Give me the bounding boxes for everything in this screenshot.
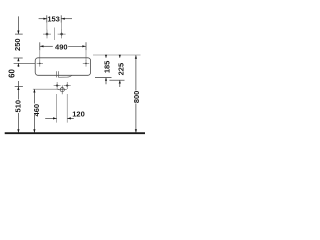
dimension 185 bottom tick	[95, 77, 112, 79]
drain outlet circle with cross	[58, 85, 67, 94]
extension line right 120	[66, 94, 68, 123]
dimension 490 left tick	[39, 42, 41, 50]
dimension 153 line right arrow	[61, 18, 72, 20]
extension line drain to 460	[33, 88, 59, 90]
dimension 153 right tick	[60, 15, 62, 22]
svg-text:185: 185	[103, 61, 112, 74]
dimension 120 right arrow	[67, 117, 74, 119]
dimension 153 left tick	[46, 15, 48, 22]
dimension 60 line at hole centerline	[14, 62, 36, 64]
extension line 490 left	[39, 50, 41, 61]
tick at basin top left	[14, 57, 23, 59]
extension line left 120	[56, 94, 58, 123]
wall fixing hole left below basin (diamond with cross)	[54, 82, 61, 89]
fixing hole left (cross mark)	[37, 60, 43, 66]
dimension 490 right arrow	[68, 45, 86, 47]
svg-text:120: 120	[72, 109, 85, 118]
dimension 225 upper arrow	[119, 55, 121, 58]
extension line left tap hole	[46, 23, 48, 31]
dimension 800 upper arrow	[135, 55, 137, 90]
dimension 250 upper arrow	[17, 16, 19, 34]
tap hole right (diamond with cross)	[58, 30, 66, 39]
dimension 460 upper arrow	[33, 89, 35, 103]
basin outline (front view rounded rectangle)	[35, 58, 90, 76]
dimension 510 upper arrow	[17, 81, 19, 100]
svg-text:460: 460	[32, 104, 41, 117]
tap hole left (diamond with cross)	[43, 30, 51, 39]
dimension 490 left arrow	[40, 45, 53, 47]
svg-text:510: 510	[14, 100, 23, 113]
fixing hole right (cross mark)	[83, 60, 89, 66]
dimension 250 tick at tap centerline	[15, 33, 23, 35]
dimension 153 line left arrow	[39, 18, 47, 20]
dimension 120 left arrow	[45, 117, 56, 119]
dimension 510 lower arrow to floor	[17, 113, 19, 133]
wall fixing hole right below basin (diamond with cross)	[64, 82, 71, 89]
dimension 460 lower arrow to floor	[33, 115, 35, 133]
dimension 225 bottom tick	[109, 79, 124, 81]
svg-text:800: 800	[132, 91, 141, 104]
dimension 800 lower arrow to floor	[135, 104, 137, 133]
svg-text:60: 60	[8, 69, 17, 78]
drain notch below basin	[56, 71, 72, 77]
dimension 185 lower arrow	[105, 78, 107, 85]
dimension 490 right tick	[85, 42, 87, 50]
extension line right tap hole	[60, 23, 62, 31]
tap holes centerline	[53, 28, 55, 41]
svg-text:225: 225	[116, 63, 125, 76]
dimension 225 lower arrow	[119, 80, 121, 87]
dimension 60 lower arrow	[17, 63, 19, 67]
svg-text:153: 153	[47, 15, 60, 24]
floor line	[5, 132, 145, 134]
dimension 250 lower arrow	[17, 58, 19, 61]
svg-text:250: 250	[13, 38, 22, 51]
extension line basin top right	[93, 54, 141, 56]
extension line 490 right	[85, 50, 87, 61]
dimension 510 tick	[15, 85, 23, 87]
svg-text:490: 490	[55, 43, 68, 52]
dimension 185 upper arrow	[105, 55, 107, 58]
